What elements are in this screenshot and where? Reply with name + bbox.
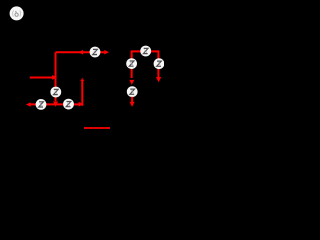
component Z6 — [126, 58, 137, 69]
component Z8 — [154, 58, 165, 69]
component Z2 on left vertical — [50, 87, 61, 98]
component Z1 — [90, 47, 101, 58]
arrow down into bottom bus from left vertical — [53, 102, 58, 107]
arrow at left end of bottom bus pointing left — [26, 102, 31, 107]
wire: top-left horizontal (corner to right end) — [56, 51, 105, 53]
wire: stub at y=77 — [30, 77, 53, 79]
arrow at bottom of left leg pointing down — [130, 102, 135, 107]
wire: right tree left leg upper — [131, 55, 133, 78]
component Z3 — [36, 99, 47, 110]
wire: bottom bus — [30, 103, 78, 105]
arrow down into Z7 — [129, 80, 134, 85]
component Z7 — [127, 86, 138, 97]
arrow on top wire pointing left — [78, 50, 83, 55]
arrow into vertical, pointing right — [52, 75, 57, 80]
wire: left vertical from corner down to bottom bus — [55, 52, 57, 101]
arrow at right end of bottom bus pointing right — [79, 102, 84, 107]
logo — [10, 6, 24, 20]
arrow at top of middle vertical pointing up — [80, 78, 84, 81]
component Z5 — [140, 46, 151, 57]
wire: middle right vertical — [81, 80, 83, 106]
wire: right tree top horizontal with corners — [132, 51, 159, 57]
wire: right tree right leg — [157, 55, 159, 77]
arrow at right end of top wire pointing right — [104, 50, 109, 55]
wire: right tree left leg lower — [131, 97, 133, 102]
component Z4 — [63, 99, 74, 110]
arrow at bottom of right leg pointing down — [156, 77, 161, 82]
wire: isolated bottom segment — [84, 127, 110, 129]
